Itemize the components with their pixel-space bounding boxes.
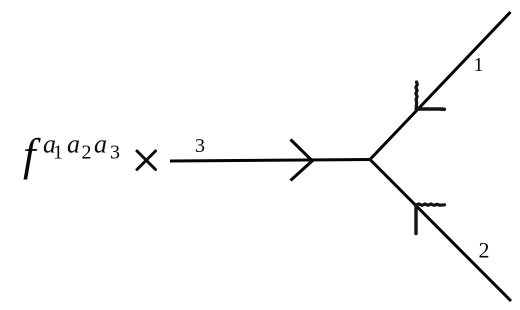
label 3 (momentum index of horizontal leg) [195,135,205,157]
svg-text:a: a [94,130,107,159]
svg-text:2: 2 [479,238,490,263]
svg-text:1: 1 [474,54,484,76]
label 1 (momentum index of upper leg) [474,54,484,76]
gluon line 1 (upper right leg) [369,12,511,161]
svg-text:2: 2 [82,142,92,164]
times sign [137,151,156,170]
label 2 (momentum index of lower leg) [479,238,490,263]
svg-text:1: 1 [53,142,63,164]
momentum arrow on line 2 (pointing toward vertex) [416,204,445,234]
svg-text:f: f [23,130,41,180]
superscript index a3 [94,130,120,164]
svg-text:3: 3 [110,142,120,164]
vertex (three-gluon junction) [368,158,371,161]
momentum arrowhead on line 3 [291,140,313,181]
svg-text:3: 3 [195,135,205,157]
superscript index a2 [67,130,92,164]
superscript index a1 [43,130,63,164]
structure constant factor f [23,130,41,180]
momentum arrow on line 1 (pointing toward vertex) [416,82,444,109]
svg-text:a: a [67,130,80,159]
gluon line 3 (incoming horizontal leg) [170,160,371,162]
gluon line 2 (lower right leg) [369,159,511,302]
